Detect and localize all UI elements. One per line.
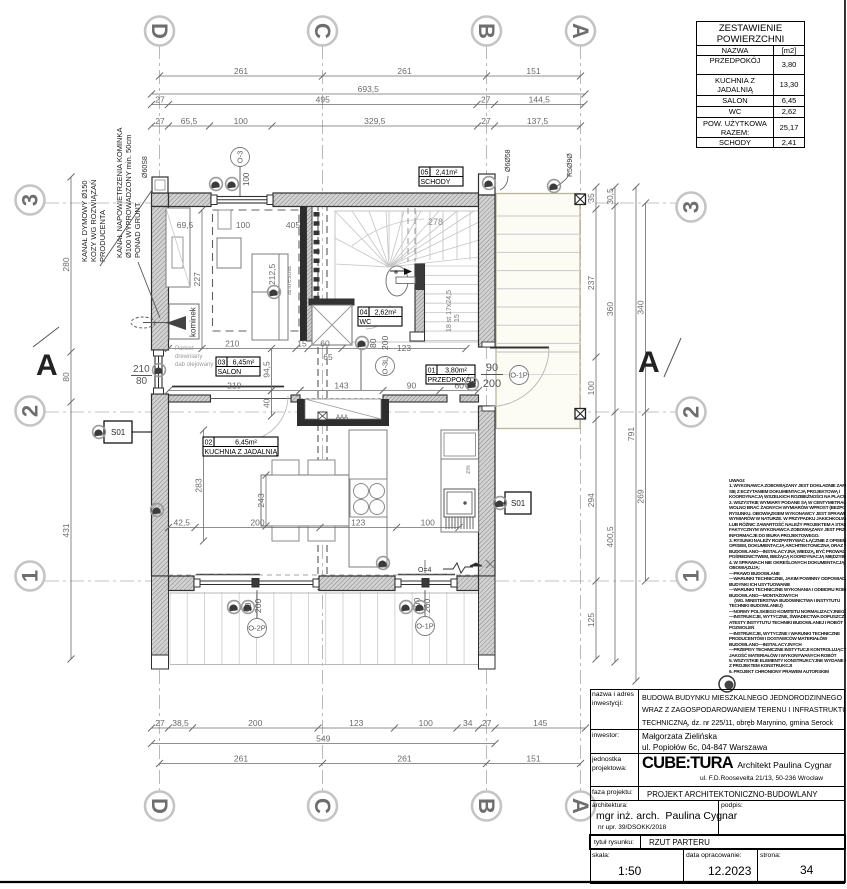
svg-text:210: 210: [225, 339, 239, 349]
svg-text:R5Ø9Ø: R5Ø9Ø: [567, 153, 574, 177]
WC wall pier hatched: [415, 264, 425, 333]
svg-text:210: 210: [133, 364, 150, 375]
chair top-left: [272, 460, 299, 475]
svg-text:269: 269: [636, 489, 646, 503]
svg-text:27: 27: [155, 718, 165, 728]
grid bubble 1 right: [677, 562, 706, 591]
svg-text:2: 2: [18, 405, 43, 417]
svg-text:B: B: [474, 798, 499, 814]
dining table: [261, 475, 349, 526]
svg-text:SCHODY: SCHODY: [421, 179, 451, 186]
terrace left wall: [152, 576, 169, 669]
window tag O-1P bottom: [416, 617, 435, 636]
svg-text:2,62m²: 2,62m²: [375, 309, 397, 316]
dim left chain: [68, 174, 75, 663]
svg-text:42,5: 42,5: [173, 518, 190, 528]
grid bubble 3 left: [16, 186, 45, 215]
interior wall mid segment 1: [169, 395, 211, 402]
svg-text:278: 278: [428, 217, 443, 227]
terrace right wall: [479, 576, 496, 669]
interior wall salon-stairs: [300, 207, 312, 342]
leader O-1P bottom: [424, 590, 426, 616]
blob wc door: [356, 337, 369, 350]
svg-text:AAA: AAA: [336, 415, 348, 421]
door leaf line O-1P: [398, 574, 455, 576]
title row nazwa i adres: [590, 689, 845, 730]
svg-text:2,41m²: 2,41m²: [436, 169, 458, 176]
dim 100/200 O-1P: [412, 598, 432, 613]
title row inwestor: [590, 730, 845, 754]
svg-text:KANAŁ DYMOWY Ø150: KANAŁ DYMOWY Ø150: [80, 180, 89, 262]
svg-text:A: A: [568, 23, 593, 39]
grid bubble B bottom: [472, 792, 501, 821]
stair tread nosing dashes: [314, 212, 320, 300]
svg-text:431: 431: [61, 523, 71, 537]
svg-text:27: 27: [482, 718, 492, 728]
svg-text:400,5: 400,5: [605, 526, 615, 548]
sliding door track: [210, 398, 291, 400]
svg-text:123: 123: [397, 343, 411, 353]
dim 90/200 O-2P: [243, 599, 263, 613]
chair top-right: [308, 460, 335, 475]
page right border: [844, 0, 846, 883]
svg-text:D: D: [147, 798, 172, 814]
svg-text:02: 02: [205, 439, 213, 446]
svg-text:18 st 17x24,5: 18 st 17x24,5: [446, 290, 453, 332]
wall bottom segment left: [169, 576, 195, 591]
svg-text:S01: S01: [511, 499, 526, 508]
svg-text:100: 100: [236, 220, 250, 230]
kitchen fridge: [441, 430, 479, 459]
svg-text:212,5: 212,5: [267, 263, 277, 285]
svg-text:35: 35: [586, 193, 596, 203]
chair bottom-left: [272, 526, 299, 541]
svg-text:283: 283: [194, 478, 204, 492]
svg-text:100: 100: [242, 172, 251, 186]
dim top row3: [148, 101, 588, 108]
fireplace flue arrow: [131, 316, 186, 330]
dim 80/200 wc door: [368, 336, 390, 350]
svg-text:Ø60S8: Ø60S8: [142, 156, 149, 178]
window O-1P glazing: [395, 579, 457, 588]
chimney block: [152, 177, 168, 193]
void shaft with X: [312, 305, 352, 345]
svg-text:04: 04: [360, 309, 368, 316]
grid bubble 1 left: [16, 562, 45, 591]
terrace left wall end cap: [152, 655, 169, 669]
stair label 18x17x24.5: [446, 290, 461, 332]
kominek box: [169, 304, 199, 339]
grid axis D vertical: [159, 45, 161, 791]
svg-text:O-1P: O-1P: [510, 371, 528, 380]
svg-text:261: 261: [234, 754, 248, 764]
dim 94.5: [268, 345, 275, 394]
svg-text:3,80m²: 3,80m²: [445, 367, 467, 374]
entrance door jamb bottom: [482, 406, 495, 411]
svg-text:69,5: 69,5: [177, 220, 194, 230]
svg-text:80: 80: [136, 376, 148, 387]
svg-text:151: 151: [526, 754, 540, 764]
svg-text:100: 100: [419, 718, 433, 728]
dim 283: [200, 427, 207, 545]
dim 210/80 left window: [131, 364, 152, 387]
blob kitchen: [377, 557, 390, 570]
svg-text:123: 123: [351, 518, 365, 528]
dim right chain1: [593, 184, 600, 663]
WC arrow: [390, 268, 412, 275]
svg-text:O-2P: O-2P: [248, 624, 266, 633]
entrance door leaf: [490, 347, 549, 349]
svg-text:200: 200: [250, 518, 264, 528]
title row architektura / podpis: [590, 801, 845, 835]
oven vent lines: [446, 517, 473, 529]
svg-text:791: 791: [626, 427, 636, 441]
room label KUCHNIA Z JADALNIĄ: [203, 437, 278, 456]
leader O-3: [239, 167, 241, 197]
door tag O-2P terrace: [248, 619, 267, 638]
window O-3 glazing: [211, 195, 273, 205]
blob S01 right: [494, 497, 507, 510]
kitchen sofa/planter U: [297, 399, 389, 426]
svg-text:65,5: 65,5: [181, 116, 198, 126]
svg-text:100: 100: [234, 116, 248, 126]
svg-text:261: 261: [234, 66, 248, 76]
svg-text:Ø100 WYPROWADZONY min. 50cm: Ø100 WYPROWADZONY min. 50cm: [124, 135, 133, 258]
svg-text:210: 210: [227, 381, 241, 391]
wall bottom segment right: [457, 576, 479, 591]
dim right chain2: [612, 184, 619, 666]
svg-text:kominek: kominek: [189, 306, 198, 337]
dim top row1: [156, 73, 584, 80]
svg-text:A: A: [638, 346, 660, 379]
S01 label left: [104, 421, 152, 443]
svg-text:495: 495: [316, 95, 330, 105]
dim right chain3: [642, 200, 649, 585]
leader lines chimney notes: [100, 190, 160, 318]
pergola slats: [497, 216, 579, 352]
pergola post top: [575, 194, 586, 205]
svg-text:S01: S01: [111, 428, 126, 437]
svg-text:200: 200: [248, 718, 262, 728]
svg-text:30,5: 30,5: [605, 188, 615, 205]
passage line salon-kitchen: [300, 398, 383, 400]
room label SALON: [216, 357, 260, 376]
dim 243: [263, 472, 270, 530]
svg-text:B: B: [474, 23, 499, 39]
grid bubble D top: [145, 17, 174, 46]
svg-text:94,5: 94,5: [262, 361, 272, 378]
dim kitchen interior: [165, 524, 463, 531]
dim bottom row1: [148, 725, 589, 732]
blob przedpokoj: [466, 378, 479, 391]
svg-text:KUCHNIA Z JADALNIĄ: KUCHNIA Z JADALNIĄ: [205, 449, 278, 456]
svg-text:145: 145: [533, 718, 547, 728]
terrace right wall end cap: [479, 655, 496, 669]
interior wall mid segment 4: [460, 395, 479, 402]
svg-text:15: 15: [454, 314, 461, 322]
svg-text:123: 123: [349, 718, 363, 728]
S01 label right: [496, 492, 531, 514]
svg-text:294: 294: [586, 493, 596, 507]
svg-text:34: 34: [463, 718, 473, 728]
grid axis A vertical: [580, 45, 582, 791]
wall left upper segment: [152, 207, 169, 351]
blob terrace door b: [242, 601, 255, 614]
svg-text:3: 3: [679, 201, 704, 213]
door leaf line O-2P: [196, 574, 260, 576]
interior wall mid segment 3: [383, 395, 447, 402]
svg-text:261: 261: [397, 66, 411, 76]
svg-text:38,5: 38,5: [172, 718, 189, 728]
svg-text:80: 80: [368, 338, 378, 348]
dashed line above bottom wall: [168, 574, 478, 576]
svg-text:15: 15: [297, 339, 307, 349]
svg-text:80: 80: [61, 372, 71, 382]
blob right wall top: [483, 177, 496, 190]
kitchen door arc: [243, 396, 288, 441]
blob O-1P a: [400, 601, 413, 614]
dim salon interior lower: [165, 387, 304, 394]
notes block uwagi: [729, 478, 846, 690]
dim salon interior upper: [165, 345, 470, 352]
svg-text:2: 2: [679, 406, 704, 418]
coffee table salon: [217, 238, 241, 268]
dim hall interior: [297, 387, 483, 394]
svg-text:60: 60: [320, 339, 330, 349]
svg-text:329,5: 329,5: [364, 116, 386, 126]
door tag O-3L: [376, 357, 395, 376]
area summary table: [696, 21, 805, 148]
cooktop 4 burners: [350, 479, 387, 517]
grid axis C vertical: [322, 45, 324, 791]
svg-text:O-1P: O-1P: [416, 622, 434, 631]
kitchen island counter: [349, 430, 387, 567]
wall top-left corner piece: [152, 193, 169, 207]
door tag O-1P entrance: [510, 366, 529, 385]
grid bubble 2 left: [16, 397, 45, 426]
floor annotation salon: [175, 346, 213, 368]
grid axis 1 horizontal: [45, 580, 676, 582]
grid bubble C bottom: [308, 792, 337, 821]
svg-text:1: 1: [18, 570, 43, 582]
svg-text:243: 243: [256, 493, 266, 507]
svg-text:27: 27: [481, 95, 491, 105]
svg-text:drewniany: drewniany: [175, 354, 202, 360]
sliding door leaf salon: [172, 386, 284, 388]
terrace decking boards: [170, 592, 481, 665]
tag O-4 kitchen: [418, 560, 432, 574]
WC pier dark top: [415, 264, 425, 290]
dim 227: [199, 207, 206, 353]
svg-text:549: 549: [316, 734, 330, 744]
svg-text:C: C: [310, 23, 335, 39]
svg-text:C: C: [310, 798, 335, 814]
blob top window b: [226, 178, 239, 191]
svg-text:D: D: [147, 23, 172, 39]
title row jednostka projektowa: [590, 754, 845, 787]
grid axis B vertical: [486, 45, 488, 791]
grid axis 3 horizontal: [45, 202, 676, 204]
svg-text:261: 261: [397, 754, 411, 764]
svg-text:143: 143: [334, 381, 348, 391]
svg-text:KOZY WG ROZWIĄZAŃ: KOZY WG ROZWIĄZAŃ: [89, 180, 98, 262]
expansion joint dashed pair at C: [318, 193, 327, 590]
blob pergola top: [548, 180, 561, 193]
svg-text:dab olejowany: dab olejowany: [175, 362, 213, 368]
entrance door swing arc: [490, 348, 549, 407]
dim bottom row3: [156, 760, 584, 767]
svg-text:27: 27: [155, 116, 165, 126]
svg-text:100: 100: [421, 518, 435, 528]
svg-text:360: 360: [605, 302, 615, 316]
svg-text:280: 280: [61, 257, 71, 271]
wardrobe salon: [166, 208, 190, 287]
svg-text:137,5: 137,5: [527, 116, 549, 126]
title row tytul rysunku: [589, 834, 846, 850]
mezzanine dashed outline: [213, 210, 300, 331]
WC door arc: [366, 305, 390, 329]
sofa salon: [252, 254, 288, 340]
svg-text:05: 05: [421, 169, 429, 176]
window left glazing: [154, 350, 164, 394]
leader O-2P: [256, 590, 258, 618]
svg-text:227: 227: [192, 272, 202, 286]
svg-text:Parkiet: Parkiet: [175, 346, 194, 352]
svg-text:3: 3: [18, 194, 43, 206]
grid bubble A top: [566, 17, 595, 46]
svg-text:144,5: 144,5: [529, 95, 551, 105]
glass door O-2P glazing: [194, 579, 319, 588]
svg-text:200: 200: [380, 336, 390, 350]
dim 791 overall: [626, 184, 640, 685]
blob sofa: [268, 286, 281, 299]
svg-text:A: A: [36, 349, 58, 382]
radiator below window: [218, 210, 231, 229]
svg-text:237: 237: [586, 276, 596, 290]
svg-text:KANAŁ NAPOWIETRZENIA KOMINKA: KANAŁ NAPOWIETRZENIA KOMINKA: [115, 128, 124, 258]
svg-text:27: 27: [155, 95, 165, 105]
window tag O-3: [231, 148, 250, 167]
svg-text:90: 90: [486, 362, 498, 374]
entry landing line: [503, 374, 578, 376]
wall right lower segment: [479, 406, 496, 576]
svg-text:O-3: O-3: [236, 151, 245, 164]
dim bottom row2 549: [148, 740, 499, 747]
chair bottom-right: [308, 526, 335, 541]
svg-text:SALON: SALON: [218, 369, 242, 376]
blob O-1P b: [414, 601, 427, 614]
svg-text:125: 125: [586, 613, 596, 627]
dim 90/200 entrance: [481, 362, 503, 390]
stair flight lines: [335, 211, 479, 342]
wall right top corner piece: [479, 174, 496, 195]
svg-text:zm: zm: [465, 465, 472, 474]
oven appliance: [444, 489, 475, 517]
note kanal napowietrzenia: [115, 128, 142, 258]
pergola frame: [496, 194, 580, 429]
svg-text:6,45m²: 6,45m²: [233, 359, 255, 366]
page bottom border: [0, 881, 845, 883]
pergola post bottom: [575, 409, 586, 420]
note kanal dymowy: [80, 180, 107, 262]
svg-text:65: 65: [323, 352, 333, 362]
svg-text:151: 151: [526, 66, 540, 76]
room label PRZEDPOKÓJ: [426, 365, 475, 384]
grid bubble 3 right: [677, 193, 706, 222]
grid bubble B top: [472, 17, 501, 46]
title block: [590, 689, 845, 884]
svg-text:693,5: 693,5: [358, 84, 380, 94]
entrance door jamb top: [482, 342, 495, 347]
wall left lower segment: [152, 394, 169, 576]
svg-text:01: 01: [428, 367, 436, 374]
dim top row4: [148, 123, 584, 130]
section marker A left: [33, 327, 59, 382]
svg-text:405: 405: [286, 220, 300, 230]
grid bubble A bottom: [566, 792, 595, 821]
svg-text:WC: WC: [360, 319, 372, 326]
wall top segment right of window O-3: [273, 193, 479, 207]
grid axis 2 horizontal: [45, 411, 676, 413]
dim 40: [268, 387, 275, 420]
interior wall mid segment 2: [291, 395, 300, 402]
breakline symbol: [443, 560, 494, 573]
wall right upper segment: [479, 195, 496, 347]
title row faza projektu: [590, 787, 845, 801]
WC washbasin: [386, 266, 415, 296]
dim top row2 693.5: [148, 91, 589, 98]
section marker A right: [638, 338, 681, 379]
blob top window a: [210, 178, 223, 191]
svg-text:6,45m²: 6,45m²: [235, 439, 257, 446]
grid bubble C top: [308, 17, 337, 46]
room label WC: [358, 307, 402, 326]
blob left wall lower: [151, 504, 164, 517]
stair cut dashed line: [408, 208, 415, 262]
svg-text:Ø6Ø58: Ø6Ø58: [505, 149, 512, 172]
blob S01 left: [93, 426, 106, 439]
svg-text:40: 40: [262, 398, 272, 408]
title row skala data strona: [590, 850, 845, 884]
blob left window: [153, 364, 166, 377]
svg-text:03: 03: [218, 359, 226, 366]
grid bubble 2 right: [677, 398, 706, 427]
leader O-3L: [360, 349, 362, 390]
leader R5090: [500, 174, 569, 190]
wall top segment left of window O-3: [169, 193, 212, 207]
grid bubble D bottom: [145, 792, 174, 821]
WC pier end cap: [410, 332, 425, 341]
interior wall stub above void: [309, 299, 354, 305]
room label SCHODY: [419, 167, 463, 186]
blob terrace door a: [228, 601, 241, 614]
svg-text:O-3L: O-3L: [381, 358, 390, 375]
svg-text:1: 1: [679, 570, 704, 582]
svg-text:27: 27: [481, 116, 491, 126]
svg-text:PRODUCENTA: PRODUCENTA: [98, 210, 107, 262]
wall bottom segment middle: [319, 576, 395, 591]
svg-text:340: 340: [636, 300, 646, 314]
svg-text:100: 100: [586, 381, 596, 395]
svg-text:200: 200: [483, 378, 501, 390]
kitchen counter right: [441, 459, 479, 532]
svg-text:90: 90: [407, 381, 417, 391]
